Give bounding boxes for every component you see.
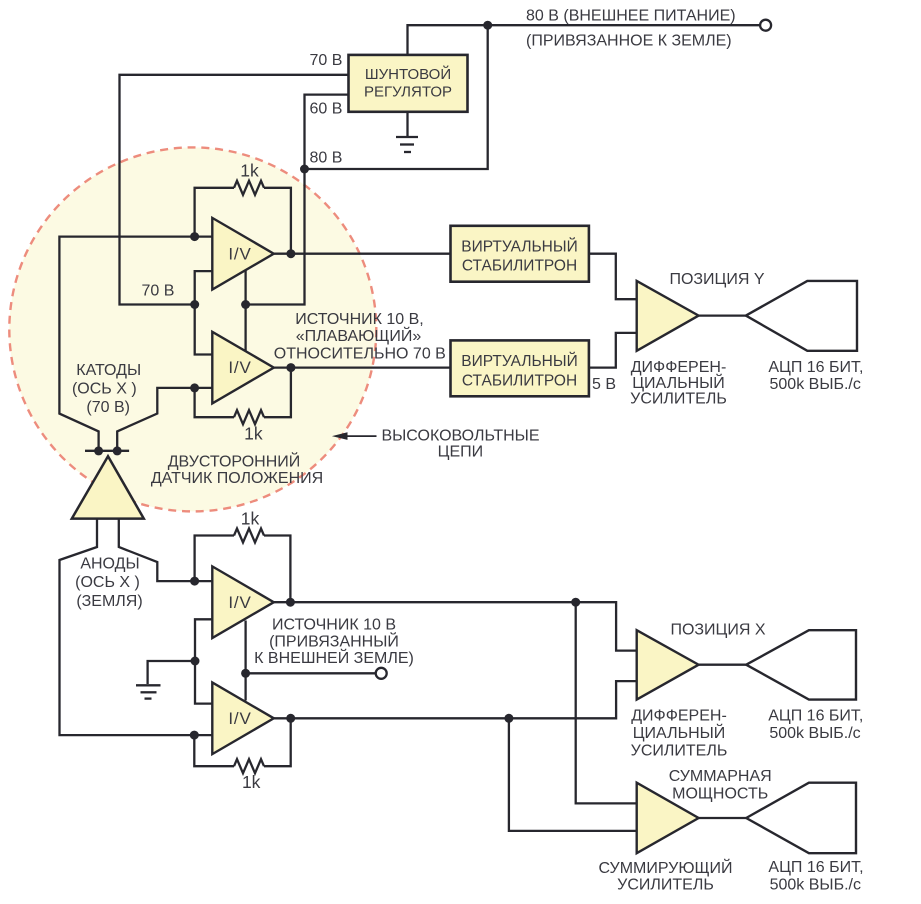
svg-text:К ВНЕШНЕЙ ЗЕМЛЕ): К ВНЕШНЕЙ ЗЕМЛЕ) <box>254 648 414 667</box>
wire amp1 output to virtual zener 1 <box>274 253 451 255</box>
shunt regulator box <box>349 55 468 112</box>
svg-text:СУММИРУЮЩИЙ: СУММИРУЮЩИЙ <box>599 858 733 877</box>
svg-text:ДИФФЕРЕН-: ДИФФЕРЕН- <box>631 707 727 724</box>
label cathodes <box>72 362 141 416</box>
wire virtual zener 1 to Y diff amp upper input <box>589 254 637 300</box>
node amp4 output <box>286 714 295 723</box>
wire amp2 output to virtual zener 2 <box>274 366 451 368</box>
op-amp I/V A4 <box>212 683 273 755</box>
label anodes <box>75 556 143 611</box>
svg-text:60 В: 60 В <box>310 101 343 118</box>
op-amp I/V A1 <box>212 218 273 290</box>
svg-text:1k: 1k <box>241 508 260 528</box>
svg-text:«ПЛАВАЮЩИЙ»: «ПЛАВАЮЩИЙ» <box>296 326 422 345</box>
wire X diff amp output to ADC <box>699 664 747 666</box>
node cathode left <box>94 446 103 455</box>
wire amp2 feedback left <box>195 388 234 417</box>
node amp2 inverting input <box>190 383 199 392</box>
label differential amplifier Y <box>630 359 727 408</box>
svg-text:АЦП 16 БИТ,: АЦП 16 БИТ, <box>768 859 863 876</box>
wire 10V source to external terminal <box>246 672 376 674</box>
svg-text:I/V: I/V <box>228 593 251 612</box>
wire amp4 feedback right <box>264 718 291 766</box>
wire 60V from regulator <box>305 95 349 169</box>
resistor R 1k amp4 feedback <box>234 759 264 773</box>
svg-text:I/V: I/V <box>228 244 251 263</box>
label total power <box>669 768 772 803</box>
svg-text:80 В: 80 В <box>310 150 343 167</box>
node amp3 output branch <box>571 598 580 607</box>
node ground junction <box>191 657 200 666</box>
ground near amp3 <box>136 685 161 698</box>
node amp4 output branch <box>504 714 513 723</box>
svg-text:1k: 1k <box>242 772 261 792</box>
label high voltage circuits <box>381 428 539 461</box>
wire amp3 feedback left <box>195 536 234 582</box>
label floating 10V source <box>274 311 446 363</box>
svg-text:ПОЗИЦИЯ X: ПОЗИЦИЯ X <box>670 622 765 639</box>
wire 80V rail down to 80V line <box>305 25 488 169</box>
terminal 10V external ground <box>376 668 387 679</box>
wire amp4 output to X diff amp lower input <box>274 681 637 718</box>
ADC symbol X <box>746 630 856 699</box>
svg-text:АЦП 16 БИТ,: АЦП 16 БИТ, <box>768 707 863 724</box>
node cathode right <box>113 446 122 455</box>
resistor R 1k amp2 feedback <box>234 410 264 424</box>
label grounded 10V source <box>254 617 414 668</box>
ADC symbol summing <box>746 783 856 854</box>
node amp3 inverting input <box>190 577 199 586</box>
svg-text:500k ВЫБ./с: 500k ВЫБ./с <box>769 725 860 742</box>
svg-text:МОЩНОСТЬ: МОЩНОСТЬ <box>672 786 768 803</box>
svg-text:ЦЕПИ: ЦЕПИ <box>438 444 484 461</box>
svg-text:ДАТЧИК ПОЛОЖЕНИЯ: ДАТЧИК ПОЛОЖЕНИЯ <box>151 470 323 487</box>
differential amplifier X <box>637 630 699 699</box>
svg-text:80 В (ВНЕШНЕЕ ПИТАНИЕ): 80 В (ВНЕШНЕЕ ПИТАНИЕ) <box>526 8 736 25</box>
svg-text:ЦИАЛЬНЫЙ: ЦИАЛЬНЫЙ <box>633 723 726 742</box>
wire amp3 lower input to ground and amp4 input <box>195 619 212 703</box>
wire supply rail between amp1/amp2 <box>244 268 246 353</box>
wire branch to summing amp lower input <box>509 718 637 831</box>
svg-text:СТАБИЛИТРОН: СТАБИЛИТРОН <box>462 258 577 275</box>
svg-text:500k ВЫБ./с: 500k ВЫБ./с <box>770 877 861 894</box>
svg-text:УСИЛИТЕЛЬ: УСИЛИТЕЛЬ <box>630 391 727 408</box>
svg-text:(ПРИВЯЗАННОЕ К ЗЕМЛЕ): (ПРИВЯЗАННОЕ К ЗЕМЛЕ) <box>526 32 732 49</box>
svg-text:ПОЗИЦИЯ Y: ПОЗИЦИЯ Y <box>669 271 764 288</box>
position sensor triangle <box>72 456 144 518</box>
svg-text:I/V: I/V <box>228 358 251 377</box>
differential amplifier Y <box>637 281 699 351</box>
svg-text:ВИРТУАЛЬНЫЙ: ВИРТУАЛЬНЫЙ <box>461 237 577 255</box>
label differential amplifier X <box>631 707 728 759</box>
svg-text:(ПРИВЯЗАННЫЙ: (ПРИВЯЗАННЫЙ <box>269 632 399 651</box>
wire amp3 output to X diff amp upper input <box>274 602 637 650</box>
label ADC Y <box>768 359 863 393</box>
resistor R 1k amp1 feedback <box>234 181 264 195</box>
arrow to high-voltage circle <box>332 432 377 440</box>
node amp4 inverting input <box>190 731 199 740</box>
svg-text:ИСТОЧНИК 10 В,: ИСТОЧНИК 10 В, <box>295 311 424 328</box>
wire amp4 feedback left <box>194 735 234 766</box>
wire virtual zener 2 to Y diff amp lower input <box>589 333 637 368</box>
node amp1 output <box>286 249 295 258</box>
svg-text:70 В: 70 В <box>142 283 175 300</box>
svg-text:ДИФФЕРЕН-: ДИФФЕРЕН- <box>631 359 727 376</box>
wire amp2 feedback right <box>264 368 291 418</box>
svg-text:РЕГУЛЯТОР: РЕГУЛЯТОР <box>364 84 452 101</box>
op-amp I/V A3 <box>212 566 273 638</box>
wire supply rail between amp3/amp4 <box>244 621 246 701</box>
svg-text:ШУНТОВОЙ: ШУНТОВОЙ <box>365 65 451 83</box>
svg-text:АНОДЫ: АНОДЫ <box>80 556 139 573</box>
svg-text:УСИЛИТЕЛЬ: УСИЛИТЕЛЬ <box>617 877 714 894</box>
high-voltage region dashed circle <box>9 147 376 511</box>
wire ground branch <box>148 661 195 684</box>
svg-text:1k: 1k <box>244 424 263 444</box>
op-amp I/V A2 <box>212 332 273 404</box>
wire 70V to both amp inputs <box>195 271 213 354</box>
label ADC summing <box>768 859 863 894</box>
svg-text:500k ВЫБ./с: 500k ВЫБ./с <box>770 376 861 393</box>
wire 70V from regulator <box>120 75 349 305</box>
terminal 80V external supply <box>760 20 771 31</box>
svg-text:(ЗЕМЛЯ): (ЗЕМЛЯ) <box>76 593 142 610</box>
node amp1 inverting input <box>190 232 199 241</box>
summing amplifier <box>637 783 699 854</box>
svg-text:5 В: 5 В <box>592 376 616 393</box>
svg-text:(70 В): (70 В) <box>86 399 130 416</box>
wire branch to summing amp upper input <box>576 602 637 803</box>
node amp supply lower <box>241 669 250 678</box>
cathode bar <box>85 450 129 452</box>
node amp3 output <box>286 598 295 607</box>
label ADC X <box>768 707 863 742</box>
ADC symbol Y <box>746 281 857 351</box>
svg-text:ЦИАЛЬНЫЙ: ЦИАЛЬНЫЙ <box>632 373 725 392</box>
svg-text:ИСТОЧНИК 10 В: ИСТОЧНИК 10 В <box>272 617 396 634</box>
node 80V <box>300 165 309 174</box>
wire amp1 feedback left <box>195 188 234 237</box>
svg-text:70 В: 70 В <box>310 52 343 69</box>
ground under shunt regulator <box>396 112 418 152</box>
wire cathode left lead to amp1 input <box>59 237 212 451</box>
svg-text:(ОСЬ X ): (ОСЬ X ) <box>75 574 140 591</box>
label 80V external supply <box>526 8 736 50</box>
svg-text:КАТОДЫ: КАТОДЫ <box>76 362 141 379</box>
node amp supply upper <box>241 300 250 309</box>
svg-text:УСИЛИТЕЛЬ: УСИЛИТЕЛЬ <box>631 743 728 760</box>
node amp2 output <box>286 363 295 372</box>
svg-text:ВЫСОКОВОЛЬТНЫЕ: ВЫСОКОВОЛЬТНЫЕ <box>381 428 539 445</box>
node supply rail top <box>483 21 492 30</box>
wire amp3 feedback right <box>264 536 290 603</box>
wire 80V feed down to amp supplies <box>246 169 305 305</box>
wire cathode right lead to amp2 input <box>117 388 212 451</box>
node 70V <box>190 300 199 309</box>
virtual zener box 2 <box>451 340 589 396</box>
svg-text:1k: 1k <box>240 161 259 181</box>
svg-text:СУММАРНАЯ: СУММАРНАЯ <box>669 768 772 785</box>
svg-text:(ОСЬ X ): (ОСЬ X ) <box>72 381 137 398</box>
wire anode right lead to amp3 input <box>119 519 213 581</box>
virtual zener box 1 <box>451 226 589 282</box>
svg-text:ДВУСТОРОННИЙ: ДВУСТОРОННИЙ <box>168 452 301 471</box>
wire summing amp output to ADC <box>699 817 747 819</box>
wire Y diff amp output to ADC <box>699 314 746 316</box>
svg-text:СТАБИЛИТРОН: СТАБИЛИТРОН <box>462 372 577 389</box>
svg-text:ОТНОСИТЕЛЬНО 70 В: ОТНОСИТЕЛЬНО 70 В <box>274 346 446 363</box>
resistor R 1k amp3 feedback <box>234 529 264 543</box>
wire anode left lead to amp4 input <box>60 519 213 735</box>
svg-text:АЦП 16 БИТ,: АЦП 16 БИТ, <box>768 359 863 376</box>
wire 80V box top to external supply rail <box>408 25 760 55</box>
svg-text:ВИРТУАЛЬНЫЙ: ВИРТУАЛЬНЫЙ <box>461 352 577 370</box>
wire amp1 feedback right <box>264 188 291 254</box>
label summing amplifier <box>599 858 733 894</box>
svg-text:I/V: I/V <box>228 709 251 728</box>
label bilateral position sensor <box>151 452 323 488</box>
